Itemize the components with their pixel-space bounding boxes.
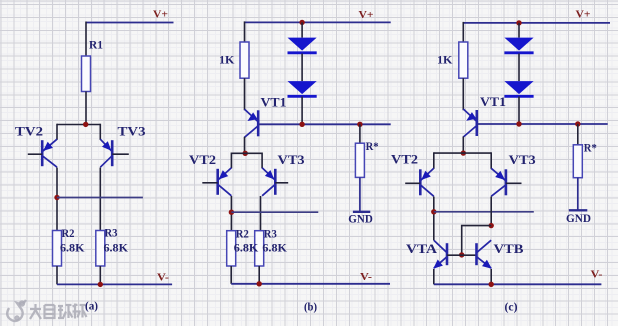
wire to TV3 emitter <box>99 124 101 140</box>
wire VTB emitter to V- (c) <box>490 269 492 284</box>
svg-text:VT1: VT1 <box>261 96 287 110</box>
resistor R* body (c) <box>573 145 582 178</box>
wire to VT2 emitter (b) <box>230 153 232 169</box>
svg-text:VTB: VTB <box>494 242 524 256</box>
node: diodes/bias rail junction (c) <box>516 121 521 126</box>
svg-text:GND: GND <box>566 213 591 225</box>
node: output stub junction (c) <box>431 209 436 214</box>
transistor VT1 (c) (PNP) <box>463 109 477 137</box>
node: R1/emitters junction (a) <box>83 122 88 127</box>
wire 1K to VT1 emitter (b) <box>244 78 246 110</box>
wire TV3 collector to R3 <box>99 168 101 231</box>
wire VTA emitter to V- (c) <box>433 269 435 284</box>
resistor R* body (b) <box>355 143 364 177</box>
wire VT2 collector to R2 (b) <box>230 196 232 231</box>
wire output stub (b) <box>231 211 318 213</box>
wire to TV2 emitter <box>56 124 58 140</box>
svg-text:V-: V- <box>591 269 603 281</box>
transistor VTB (NPN, diode-connected) <box>477 240 492 269</box>
wire VTB base tie (c) <box>462 226 492 255</box>
wire V+ to 1K (c) <box>462 22 464 42</box>
transistor TV2 (PNP) <box>28 139 57 167</box>
resistor R1 body <box>82 56 91 92</box>
svg-text:6.8K: 6.8K <box>234 243 259 255</box>
wire VT2 collector to VTA (c) <box>433 197 435 241</box>
V- rail (c) <box>434 283 602 285</box>
svg-text:TV2: TV2 <box>15 125 43 139</box>
transistor VT1 (b) (PNP) <box>245 109 259 137</box>
svg-text:(b): (b) <box>304 300 317 314</box>
wire V+ to diode D3 (c) <box>518 23 520 38</box>
wire output stub (c) <box>434 211 534 213</box>
wire R2 to V- rail <box>56 266 58 284</box>
node: VT1 collector/emitters (b) <box>243 151 248 156</box>
svg-text:R*: R* <box>584 143 597 155</box>
svg-text:TV3: TV3 <box>118 125 146 139</box>
diode D4 (c) <box>504 81 533 94</box>
node: V+/diode junction (c) <box>516 20 521 25</box>
node: bias rail/R* junction (b) <box>357 122 362 127</box>
wire R1 to emitter node <box>85 92 87 125</box>
V+ rail (a) <box>86 22 174 24</box>
svg-text:6.8K: 6.8K <box>262 243 287 255</box>
svg-text:V+: V+ <box>576 9 591 21</box>
wire D2 to bias rail (b) <box>301 97 303 125</box>
wire VT1 base bias rail (c) <box>477 123 607 125</box>
svg-text:(a): (a) <box>85 299 98 313</box>
svg-text:R1: R1 <box>89 38 103 52</box>
resistor R3 body (b) <box>255 231 264 266</box>
svg-text:1K: 1K <box>437 53 453 67</box>
resistor R3 body <box>96 231 105 267</box>
V- rail (a) <box>57 283 172 285</box>
diode D1 (b) <box>288 38 317 51</box>
wire D4 to bias rail (c) <box>518 97 520 125</box>
svg-text:(c): (c) <box>505 300 518 314</box>
svg-text:V+: V+ <box>359 9 374 21</box>
svg-text:VT2: VT2 <box>391 153 418 167</box>
transistor TV3 (PNP) <box>100 139 129 167</box>
wire emitters horizontal (a) <box>57 124 100 126</box>
wire VT3 collector down (c) <box>490 197 492 226</box>
svg-text:VT3: VT3 <box>509 153 536 167</box>
svg-text:R3: R3 <box>105 226 118 240</box>
node: VTB collector/base tie (c) <box>489 223 494 228</box>
svg-text:R*: R* <box>366 141 379 153</box>
transistor VT2 (c) (PNP) <box>405 168 434 196</box>
wire R2 to V- rail (b) <box>230 266 232 284</box>
wire R3 to V- rail <box>99 266 101 284</box>
wire output stub (a) <box>57 197 143 199</box>
svg-text:VT2: VT2 <box>189 153 216 167</box>
svg-text:1K: 1K <box>219 53 235 67</box>
wire VT1 collector down (b) <box>244 137 246 154</box>
svg-text:R3: R3 <box>264 227 277 241</box>
wire V+ to 1K (b) <box>244 21 246 42</box>
svg-text:R2: R2 <box>62 226 75 240</box>
svg-text:VTA: VTA <box>406 242 437 256</box>
wire to VT3 emitter (c) <box>490 152 492 169</box>
resistor 1K body (c) <box>459 42 468 78</box>
wire bias rail to R* (b) <box>359 124 361 143</box>
svg-text:VT3: VT3 <box>278 153 305 167</box>
wire V+ to diode D1 (b) <box>301 22 303 37</box>
node: VT1 collector/emitters (c) <box>461 150 466 155</box>
wire TV2 collector to R2 <box>56 168 58 231</box>
ground GND (c) <box>569 209 588 211</box>
node: diodes/bias rail junction (b) <box>299 122 304 127</box>
wire R* to GND (c) <box>577 178 579 211</box>
wire to VT3 emitter (b) <box>261 153 263 169</box>
wire VT1 base bias rail (b) <box>259 123 391 125</box>
wire D3 to D4 (c) <box>518 54 520 82</box>
watermark text strokes <box>30 304 87 320</box>
wire R3 to V- rail (b) <box>258 266 260 284</box>
V- rail (b) <box>231 283 390 285</box>
svg-text:VT1: VT1 <box>480 95 506 109</box>
V+ rail (b) <box>245 21 391 23</box>
wire bias rail to R* (c) <box>577 124 579 145</box>
node: R3/V- junction (a) <box>98 282 103 287</box>
node: VTB/V- junction (c) <box>489 282 494 287</box>
transistor VT3 (b) (PNP) <box>262 168 288 196</box>
resistor R2 body (b) <box>227 231 236 266</box>
node: bias rail/R* junction (c) <box>575 121 580 126</box>
svg-text:GND: GND <box>348 213 373 225</box>
wire VT1 collector down (c) <box>462 137 464 154</box>
transistor VT2 (b) (PNP) <box>202 168 231 196</box>
node: R3/V- junction (b) <box>257 281 262 286</box>
wire R* to GND (b) <box>359 177 361 211</box>
svg-text:V-: V- <box>360 271 372 283</box>
wire emitters horizontal (b) <box>231 152 262 154</box>
wire D1 to D2 (b) <box>301 54 303 82</box>
node: output stub junction (a) <box>54 195 59 200</box>
diode D3 (c) <box>504 38 533 51</box>
diode D2 (b) <box>288 81 317 94</box>
svg-text:R2: R2 <box>236 227 249 241</box>
svg-text:V-: V- <box>157 272 169 284</box>
ground GND (b) <box>353 211 370 213</box>
wire VT3 collector to R3 (b) <box>260 196 262 231</box>
node: V+/diode junction (b) <box>299 20 304 25</box>
resistor 1K body (b) <box>240 42 249 78</box>
watermark logo <box>7 300 26 321</box>
wire 1K to VT1 emitter (c) <box>462 78 464 110</box>
transistor VT3 (c) (PNP) <box>491 168 521 196</box>
transistor VTA (NPN) <box>433 240 476 269</box>
wire emitters horizontal (c) <box>434 152 491 154</box>
V+ rail (c) <box>463 22 610 24</box>
svg-text:6.8K: 6.8K <box>60 243 85 255</box>
wire to VT2 emitter (c) <box>433 152 435 169</box>
svg-text:6.8K: 6.8K <box>104 243 129 255</box>
wire V+ to R1 <box>85 22 87 57</box>
resistor R2 body <box>53 231 62 267</box>
node: output stub junction (b) <box>229 210 234 215</box>
svg-text:V+: V+ <box>153 9 168 21</box>
node: VTA/VTB bases junction (c) <box>459 252 464 257</box>
